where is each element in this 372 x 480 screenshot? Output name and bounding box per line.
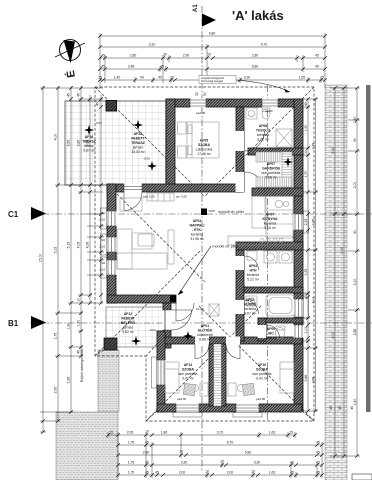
washer 2 [279, 251, 292, 263]
door gap furdo [236, 300, 245, 314]
svg-text:34,03 m²: 34,03 m² [131, 150, 145, 154]
dim col right 4 over brick [343, 88, 345, 456]
roof eaves dashed outline [95, 87, 314, 421]
svg-text:AF06: AF06 [259, 124, 267, 128]
svg-text:45: 45 [316, 451, 320, 455]
svg-text:5,15: 5,15 [54, 247, 58, 254]
dim ticks left cols [41, 86, 103, 434]
svg-text:10: 10 [205, 469, 209, 473]
wall hall/hth vertical [236, 250, 244, 341]
room label AF14 SZOBA [179, 363, 198, 381]
section line A1 second vertical [267, 85, 269, 420]
section line A1 vertical [201, 6, 203, 472]
svg-text:kerámia: kerámia [264, 222, 276, 226]
door gap bedroom1 [195, 337, 209, 345]
dim ticks top rows [98, 34, 327, 82]
svg-text:5,06 m²: 5,06 m² [265, 176, 278, 180]
tusolo wc [262, 109, 270, 119]
star hall [183, 331, 193, 341]
svg-text:90: 90 [353, 230, 357, 234]
entrance terrace AF12 tiled floor [106, 307, 163, 347]
dim bottom verticals [108, 432, 322, 478]
svg-text:8,86 m²: 8,86 m² [199, 338, 212, 342]
shower tray tusolo [276, 129, 292, 147]
dim col 4 [80, 86, 82, 356]
svg-text:AF12: AF12 [124, 312, 132, 316]
wall living top [107, 184, 240, 192]
svg-text:9,41 m²: 9,41 m² [256, 377, 269, 381]
wall konyha/hth [236, 242, 303, 250]
neighbour brick wall strip right [325, 85, 347, 480]
pillar entrance corner [104, 338, 117, 350]
svg-text:lam.parketta: lam.parketta [253, 372, 272, 376]
arrowhead monolit 2 [178, 290, 184, 295]
svg-text:5,80: 5,80 [245, 451, 252, 455]
svg-text:4,01: 4,01 [311, 297, 315, 304]
gardrob comb top [256, 152, 292, 162]
room label AF08 KONYHA [263, 213, 278, 231]
rug bedroom1 [183, 383, 195, 395]
svg-text:45: 45 [290, 461, 294, 465]
svg-text:2,80: 2,80 [252, 54, 259, 58]
svg-text:kerámia: kerámia [257, 133, 269, 137]
sill west living 2 [101, 234, 107, 255]
window west living 2 [107, 237, 117, 252]
svg-text:45: 45 [160, 65, 164, 69]
svg-text:AF10: AF10 [258, 363, 266, 367]
svg-text:10: 10 [77, 298, 81, 302]
svg-text:kerámia: kerámia [244, 307, 256, 311]
wall west lower [157, 331, 165, 412]
svg-text:üvegfal hőszigetelő: üvegfal hőszigetelő [201, 76, 225, 80]
svg-text:terasz: terasz [84, 144, 94, 148]
room label AF02 FURDO [244, 298, 257, 316]
svg-text:monolit vb. pillér: monolit vb. pillér [213, 244, 240, 248]
svg-text:2,00: 2,00 [227, 471, 234, 475]
svg-text:4,59: 4,59 [86, 242, 90, 249]
wall south [157, 404, 302, 412]
pillar monolit 2 [170, 296, 176, 303]
kitchen counter south [228, 236, 293, 245]
window south bedroom2 [236, 404, 259, 413]
dim ticks right cols [306, 86, 359, 458]
window west living 3 [107, 260, 117, 275]
paving walkway [98, 350, 119, 412]
dim ticks bottom rows [106, 433, 324, 477]
wall living bottom [107, 295, 176, 303]
nightstand 2 [178, 146, 187, 158]
svg-text:3,10: 3,10 [149, 43, 156, 47]
svg-text:3,85: 3,85 [77, 140, 81, 147]
svg-text:AF09: AF09 [267, 327, 275, 331]
door gap wc [258, 325, 267, 338]
svg-text:15: 15 [109, 431, 113, 435]
cabinet living top [147, 193, 174, 201]
svg-text:5,15: 5,15 [67, 242, 71, 249]
svg-text:10: 10 [220, 459, 224, 463]
dim row bottom 2 [118, 444, 322, 446]
svg-text:1,25: 1,25 [304, 269, 308, 276]
svg-text:10: 10 [207, 52, 211, 56]
sill east konyha [304, 211, 309, 233]
desk bedroom2 [228, 383, 236, 396]
svg-text:3,90 m²: 3,90 m² [257, 138, 270, 142]
door gap hth [236, 256, 245, 270]
svg-text:1,90: 1,90 [304, 125, 308, 132]
sill west living 3 [101, 257, 107, 278]
window south bedroom1 [176, 404, 199, 413]
door arc hall [176, 303, 194, 321]
svg-text:5,22 m²: 5,22 m² [247, 278, 260, 282]
wall gardrob/konyha [252, 188, 303, 196]
door gap bedroom2 [226, 337, 240, 345]
window dim labels west [99, 211, 105, 272]
door gap tusolo [236, 131, 245, 151]
sill south bedroom1 [173, 413, 202, 418]
svg-text:Rejtett medergerenda: Rejtett medergerenda [80, 349, 84, 382]
svg-text:45: 45 [338, 406, 342, 410]
section marker A1 flag [193, 4, 216, 27]
svg-text:45: 45 [145, 471, 149, 475]
window north 1 [190, 99, 206, 108]
svg-text:FEDETT: FEDETT [131, 137, 145, 141]
svg-text:10: 10 [145, 429, 149, 433]
bathtub [266, 295, 295, 316]
room label AF01 ELOTER [197, 324, 213, 342]
svg-text:10: 10 [304, 150, 308, 154]
svg-text:3,30: 3,30 [254, 461, 261, 465]
svg-text:9,41 m²: 9,41 m² [182, 377, 195, 381]
dim stubs right [303, 88, 360, 456]
svg-text:6,00: 6,00 [331, 332, 335, 339]
dining table [120, 198, 142, 211]
svg-text:pm 3,00: pm 3,00 [176, 195, 187, 199]
svg-text:2,10: 2,10 [99, 268, 105, 272]
svg-text:95: 95 [158, 76, 162, 80]
svg-text:15,00: 15,00 [39, 254, 43, 263]
door arc wc [267, 325, 280, 338]
star terrace mid [133, 120, 143, 130]
svg-text:2,58: 2,58 [311, 377, 315, 384]
wall furdo/wc [258, 318, 303, 323]
svg-text:45: 45 [145, 441, 149, 445]
svg-text:45: 45 [315, 54, 319, 58]
svg-text:NAPPALI: NAPPALI [190, 224, 205, 228]
dim col right 5 [356, 88, 358, 456]
wall bedrooms top [165, 337, 302, 344]
svg-text:1,90 m²: 1,90 m² [265, 336, 278, 340]
window west living 1 [107, 211, 117, 226]
svg-text:6,30: 6,30 [331, 147, 335, 154]
kitchen island [252, 196, 265, 228]
pillar monolit 1 [201, 209, 207, 216]
svg-text:AF16: AF16 [85, 135, 93, 139]
svg-text:AF07: AF07 [267, 162, 275, 166]
svg-text:2,95: 2,95 [67, 377, 71, 384]
door arc terrace [124, 193, 142, 211]
section marker C1 [8, 207, 46, 220]
svg-text:A1: A1 [193, 4, 199, 12]
uvegfal note box [199, 76, 236, 84]
svg-text:1,75: 1,75 [128, 461, 135, 465]
window west bedroom1 [157, 360, 166, 385]
svg-text:'A' lakás: 'A' lakás [232, 8, 284, 23]
coffee table [138, 234, 154, 246]
svg-text:2,00: 2,00 [353, 182, 357, 189]
door gap terrace->living [124, 184, 142, 193]
svg-text:-0,03: -0,03 [149, 328, 156, 332]
svg-text:2,90: 2,90 [183, 54, 190, 58]
dim horiz stubs left [40, 88, 104, 432]
north compass [55, 40, 85, 79]
svg-text:2,35: 2,35 [311, 219, 315, 226]
svg-text:lam.parketta: lam.parketta [262, 171, 281, 175]
room label AF10 SZOBA [253, 363, 272, 381]
svg-text:2,10: 2,10 [99, 245, 105, 249]
svg-text:45: 45 [155, 471, 159, 475]
svg-text:45: 45 [316, 461, 320, 465]
svg-text:1,75: 1,75 [128, 471, 135, 475]
dim row bottom 5 [118, 474, 322, 476]
nightstand 1 [178, 122, 187, 134]
svg-text:10: 10 [179, 449, 183, 453]
svg-text:GARDRÓB: GARDRÓB [262, 166, 280, 171]
roof hip dashed diagonals [95, 87, 314, 421]
door gap gardrob [236, 172, 245, 192]
window east konyha [294, 214, 304, 230]
svg-text:15: 15 [98, 76, 102, 80]
svg-text:1,55: 1,55 [299, 76, 306, 80]
room label AF12 FEDETT BELEPO [121, 312, 136, 334]
dim col 2 [57, 86, 59, 421]
dim row bottom 1 [108, 434, 295, 436]
hth sink [247, 251, 257, 260]
svg-text:B1: B1 [8, 319, 19, 328]
svg-text:kerámia: kerámia [247, 273, 259, 277]
svg-text:FEDETT: FEDETT [121, 317, 135, 321]
svg-text:1,75: 1,75 [54, 333, 58, 340]
svg-text:SZOBA: SZOBA [256, 368, 269, 372]
svg-text:4,00: 4,00 [54, 134, 58, 141]
svg-text:45: 45 [101, 54, 105, 58]
pillar terrace corner [106, 101, 117, 112]
svg-text:pad 0,00: pad 0,00 [143, 195, 155, 199]
svg-text:2,05: 2,05 [127, 431, 134, 435]
wall hth/furdo [244, 287, 303, 293]
svg-text:15: 15 [320, 76, 324, 80]
rug bedroom2 [242, 383, 254, 395]
terrace AF15/AF16 tiled floor [65, 101, 166, 185]
dim col 6 [100, 95, 102, 303]
svg-text:3,30: 3,30 [181, 461, 188, 465]
door arc bedroom1 [195, 345, 209, 359]
svg-text:AF04: AF04 [249, 264, 257, 268]
wall living west [107, 184, 116, 303]
svg-text:2,35: 2,35 [304, 219, 308, 226]
svg-text:45: 45 [350, 406, 354, 410]
svg-text:1,80: 1,80 [161, 431, 168, 435]
sill west living 1 [101, 208, 107, 229]
star entrance [131, 336, 141, 346]
svg-text:8,67 m²: 8,67 m² [244, 312, 257, 316]
bath sink [246, 296, 257, 306]
svg-text:45: 45 [96, 102, 100, 106]
svg-text:6,70: 6,70 [227, 441, 234, 445]
svg-text:HTH: HTH [249, 269, 257, 273]
svg-text:30: 30 [163, 52, 167, 56]
room label AF07 GARDROB [262, 162, 281, 180]
svg-text:90: 90 [102, 238, 106, 242]
svg-text:pad:90: pad:90 [196, 111, 206, 115]
svg-text:10: 10 [251, 469, 255, 473]
svg-text:90: 90 [102, 211, 106, 215]
svg-text:KONYHA: KONYHA [263, 217, 278, 221]
wall east [294, 99, 303, 411]
toilet wc [276, 328, 285, 339]
svg-text:90: 90 [203, 92, 207, 96]
svg-text:AF03: AF03 [193, 219, 201, 223]
arrowhead uvegfal [284, 89, 290, 93]
room label AF09 WC [265, 327, 278, 340]
svg-text:AF05: AF05 [200, 139, 208, 143]
star terrace west [84, 125, 94, 135]
wall tusolo/gardrob [248, 148, 303, 155]
svg-text:1,20: 1,20 [77, 320, 81, 327]
svg-text:45: 45 [67, 93, 71, 97]
svg-text:AF15: AF15 [134, 132, 142, 136]
washer 1 [264, 251, 277, 263]
gardrob comb bottom [256, 177, 292, 187]
svg-text:5,62 m²: 5,62 m² [122, 330, 135, 334]
svg-text:2,80: 2,80 [143, 451, 150, 455]
svg-text:-0,03: -0,03 [95, 121, 102, 125]
svg-text:SZOBA: SZOBA [182, 368, 195, 372]
dim col 3 [70, 86, 72, 412]
svg-text:30: 30 [195, 92, 199, 96]
door arc tusolo [245, 131, 265, 151]
dim row bottom 4 [118, 464, 322, 466]
svg-text:pad:90: pad:90 [256, 397, 266, 401]
svg-text:2,48: 2,48 [128, 65, 135, 69]
wall bedroom divider west leaf [209, 344, 214, 406]
svg-text:1,01: 1,01 [304, 327, 308, 334]
svg-text:ELŐTÉR: ELŐTÉR [198, 328, 212, 333]
gardrob comb east [282, 152, 292, 187]
svg-text:45: 45 [315, 65, 319, 69]
svg-text:AF01: AF01 [201, 324, 209, 328]
svg-text:1,60: 1,60 [269, 431, 276, 435]
svg-text:- ÉTK.: - ÉTK. [192, 227, 202, 232]
kitchen counter east [266, 196, 293, 238]
svg-text:AF07: AF07 [266, 213, 274, 217]
section marker B1 [8, 316, 46, 329]
svg-text:4,05: 4,05 [77, 242, 81, 249]
sill east furdo [304, 294, 309, 318]
dim row 15..1,40 [100, 79, 325, 81]
bed bedroom2 [280, 362, 294, 393]
svg-text:2,86: 2,86 [353, 329, 357, 336]
dim col 5 [89, 95, 91, 303]
window east furdo [294, 299, 304, 317]
room label AF04 HTH [247, 264, 260, 282]
svg-text:45: 45 [304, 295, 308, 299]
svg-text:15: 15 [170, 76, 174, 80]
paving area bottom-left [56, 412, 118, 480]
room label AF06 TUSOLO [256, 124, 271, 142]
svg-text:4,15 m²: 4,15 m² [264, 226, 277, 230]
svg-text:pe:90: pe:90 [265, 109, 273, 113]
svg-text:AF02: AF02 [246, 298, 254, 302]
window north 2 [262, 99, 278, 108]
door arc bedroom2 [226, 345, 240, 359]
svg-text:3,30: 3,30 [244, 76, 251, 80]
svg-text:2,80: 2,80 [130, 54, 137, 58]
svg-text:kerámia: kerámia [191, 233, 203, 237]
section line B1 horizontal [30, 322, 372, 324]
dim col right 1 [307, 99, 309, 411]
bed bedroom1 [165, 362, 179, 393]
svg-text:1,90: 1,90 [353, 117, 357, 124]
dim row 3,10/6,70 [100, 46, 325, 48]
svg-text:járható: járható [122, 326, 134, 330]
svg-text:1,60: 1,60 [269, 471, 276, 475]
svg-text:lam.parketta: lam.parketta [179, 372, 198, 376]
svg-text:Lakószoba: Lakószoba [196, 148, 213, 152]
sill west bedroom1 [152, 357, 157, 388]
hob circles [260, 239, 264, 243]
star terrace south [147, 161, 157, 171]
svg-text:15: 15 [289, 431, 293, 435]
svg-text:WC: WC [268, 332, 274, 336]
svg-text:3,70: 3,70 [217, 431, 224, 435]
door arc gardrob [245, 172, 265, 192]
svg-text:2,10: 2,10 [99, 218, 105, 222]
svg-text:45: 45 [329, 406, 333, 410]
svg-text:3,78: 3,78 [311, 143, 315, 150]
svg-text:45: 45 [101, 65, 105, 69]
tv board [168, 230, 174, 264]
room label AF16 TERASZ [82, 135, 96, 153]
leader monolit pillar 2 [178, 246, 211, 295]
svg-text:2,00: 2,00 [179, 471, 186, 475]
leader uvegfal note [236, 80, 290, 92]
svg-text:monolit vb. pillér: monolit vb. pillér [218, 210, 245, 214]
svg-text:C1: C1 [8, 210, 19, 219]
closet hall [209, 304, 219, 316]
svg-text:2,00: 2,00 [340, 247, 344, 254]
svg-text:45: 45 [316, 441, 320, 445]
sill south bedroom2 [233, 413, 262, 418]
svg-text:biztonsági üveggel: biztonsági üveggel [201, 79, 224, 83]
svg-text:9,80: 9,80 [209, 32, 216, 36]
svg-text:BELÉPŐ: BELÉPŐ [121, 320, 135, 325]
svg-text:1,70: 1,70 [304, 171, 308, 178]
svg-text:SZOBA: SZOBA [198, 143, 211, 147]
svg-text:45: 45 [145, 461, 149, 465]
dim row 45..5,80 [100, 68, 325, 70]
window east wc [294, 325, 304, 338]
svg-text:45: 45 [316, 471, 320, 475]
svg-text:1,40: 1,40 [353, 399, 357, 406]
svg-text:közlekedő: közlekedő [197, 333, 213, 337]
sofa living [117, 229, 132, 269]
svg-text:AF14: AF14 [184, 363, 192, 367]
wall wc west [258, 318, 266, 341]
room label AF05 SZOBA [196, 139, 213, 157]
svg-text:2,65: 2,65 [54, 387, 58, 394]
svg-text:3,10: 3,10 [353, 279, 357, 286]
svg-text:1,75: 1,75 [128, 441, 135, 445]
